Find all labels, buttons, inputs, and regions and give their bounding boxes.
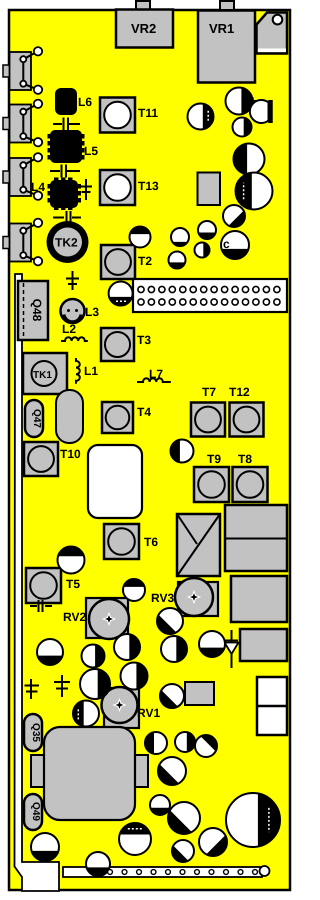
capacitor symbol below L6 — [53, 118, 80, 131]
electrolytic capacitor C37 — [31, 833, 59, 861]
svg-text:T8: T8 — [238, 452, 252, 466]
electrolytic capacitor C29 — [195, 735, 217, 757]
electrolytic capacitor C19 — [114, 634, 140, 660]
connector J1 (left edge jack) — [3, 65, 10, 77]
trimmer T4 — [102, 402, 133, 433]
trimmer T11 — [100, 98, 135, 133]
electrolytic capacitor C39 (D shape) — [250, 100, 269, 123]
connector SIL (bottom) — [108, 870, 113, 875]
inductor L1 — [76, 358, 80, 384]
electrolytic capacitor C24 — [161, 636, 187, 662]
capacitor symbol below T5 — [30, 600, 52, 612]
electrolytic capacitor C9 — [221, 231, 249, 259]
svg-text:RV2: RV2 — [63, 610, 86, 624]
resistor block — [185, 682, 214, 705]
electrolytic capacitor C3 — [233, 118, 252, 137]
svg-text:L4: L4 — [31, 180, 45, 194]
crystal Q47 — [25, 400, 43, 437]
connector J4 (left edge jack) — [3, 237, 10, 249]
electrolytic capacitor C2 — [226, 88, 253, 115]
capacitor symbol C-b — [54, 675, 70, 697]
svg-text:T2: T2 — [138, 254, 152, 268]
diode D1 — [225, 630, 238, 668]
pad block — [198, 173, 221, 206]
capacitor symbol C-a — [25, 679, 40, 699]
trimmer T8 — [233, 467, 268, 502]
svg-text:T6: T6 — [144, 535, 158, 549]
inductor L5 (toroid) — [50, 130, 82, 163]
electrolytic capacitor C28 — [175, 732, 195, 752]
electrolytic capacitor C11 — [169, 252, 186, 269]
electrolytic capacitor C18 — [82, 645, 105, 668]
svg-text:L6: L6 — [78, 95, 92, 109]
electrolytic capacitor C31 — [150, 795, 170, 815]
transformer (X box) — [177, 514, 220, 576]
electrolytic capacitor C38 — [86, 852, 110, 876]
electrolytic capacitor C26 — [160, 684, 184, 708]
electrolytic capacitor C33 — [199, 828, 227, 856]
electrolytic capacitor C10 — [195, 243, 210, 258]
svg-text:L2: L2 — [62, 322, 76, 336]
electrolytic capacitor C14 — [171, 440, 194, 463]
connector header 2x13 — [133, 279, 287, 312]
coil L3 — [61, 299, 85, 323]
capacitor block C-big1 — [225, 505, 287, 571]
capacitor symbol below L5 — [50, 165, 80, 178]
svg-text:TK2: TK2 — [55, 236, 78, 250]
electrolytic capacitor C36 — [172, 840, 194, 862]
svg-text:RV3: RV3 — [151, 591, 174, 605]
electrolytic capacitor C7 — [198, 221, 216, 239]
electrolytic capacitor C4 — [234, 144, 265, 175]
trimmer T13 — [100, 170, 135, 205]
electrolytic capacitor C23 — [157, 608, 183, 634]
capacitor block C-big3 — [240, 629, 287, 661]
wire (white trace bottom bar to SIL connector) — [63, 867, 262, 877]
trimmer T9 — [194, 467, 229, 502]
trimmer T12 — [230, 403, 264, 437]
connector J3 (left edge jack) — [3, 171, 10, 183]
trimmer T2 — [101, 245, 135, 279]
coil TK1 — [23, 353, 67, 394]
trimmer T3 — [101, 328, 134, 361]
electrolytic capacitor C27 — [145, 732, 167, 754]
trimmer T5 — [26, 568, 61, 603]
svg-text:T10: T10 — [60, 447, 81, 461]
crystal Q35 — [24, 714, 42, 751]
electrolytic capacitor C8 — [171, 228, 189, 246]
crystal Q49 — [24, 794, 42, 830]
svg-text:VR2: VR2 — [131, 21, 156, 36]
regulator VR1 tab — [220, 1, 234, 10]
svg-text:T12: T12 — [229, 385, 250, 399]
polarity mark — [250, 98, 256, 105]
svg-text:T9: T9 — [207, 452, 221, 466]
heatsink tab right of VR1 — [257, 13, 288, 54]
electrolytic capacitor C32 — [168, 802, 200, 834]
capacitor symbol above L3 — [66, 271, 79, 290]
svg-text:T7: T7 — [202, 385, 216, 399]
svg-text:RV1: RV1 — [137, 706, 160, 720]
regulator VR1 — [198, 11, 255, 83]
svg-text:c: c — [223, 237, 230, 251]
svg-text:L5: L5 — [84, 144, 98, 158]
svg-text:Q48: Q48 — [30, 299, 44, 322]
svg-text:T4: T4 — [137, 405, 151, 419]
trimmer T10 — [24, 442, 58, 476]
electrolytic capacitor C15 — [58, 547, 85, 574]
relay / filter (white box) — [88, 445, 142, 518]
trimmer T7 — [191, 403, 225, 437]
potentiometer RV1 — [104, 688, 139, 728]
wire (white power trace left side, elbow into bottom block) — [15, 274, 60, 891]
svg-text:Q47: Q47 — [31, 409, 42, 428]
electrolytic capacitor C17 — [37, 639, 63, 665]
connector J2 (left edge jack) — [3, 118, 10, 130]
electrolytic capacitor C22 — [73, 701, 99, 727]
svg-text:TK1: TK1 — [33, 370, 52, 381]
terminal block 2-way — [257, 677, 287, 735]
electrolytic capacitor C5 — [236, 173, 273, 210]
svg-text:T13: T13 — [138, 179, 159, 193]
trimmer T6 — [104, 524, 139, 559]
electrolytic capacitor C35 — [119, 823, 151, 855]
electrolytic capacitor C21 — [80, 669, 110, 699]
potentiometer RV2 — [86, 598, 128, 638]
svg-text:T11: T11 — [138, 106, 158, 120]
svg-text:Q49: Q49 — [30, 802, 41, 821]
svg-text:L3: L3 — [85, 305, 99, 319]
capacitor symbol below L4 — [53, 211, 81, 224]
capacitor (capsule) — [56, 390, 83, 443]
electrolytic capacitor C34 — [226, 793, 280, 847]
electrolytic capacitor C1 — [188, 104, 214, 130]
capacitor symbol right of L4 — [80, 179, 92, 200]
electrolytic capacitor C12 — [130, 227, 151, 248]
svg-text:Q35: Q35 — [30, 723, 41, 742]
svg-text:VR1: VR1 — [209, 21, 234, 36]
svg-text:T5: T5 — [66, 577, 80, 591]
coil TK2 — [47, 221, 89, 263]
crystal Q48 — [18, 281, 48, 340]
electrolytic capacitor C6 — [223, 205, 245, 227]
electrolytic capacitor C13 — [109, 282, 133, 306]
electrolytic capacitor C20 — [121, 663, 148, 690]
electrolytic capacitor C30 — [158, 757, 186, 785]
svg-text:L1: L1 — [84, 364, 98, 378]
regulator VR2 — [116, 10, 173, 48]
svg-text:T3: T3 — [137, 333, 151, 347]
electrolytic capacitor C16 — [123, 579, 145, 601]
potentiometer RV3 — [178, 582, 218, 616]
inductor L6 — [55, 88, 77, 115]
capacitor block C-big2 — [231, 576, 287, 622]
electrolytic capacitor C25 — [199, 631, 225, 657]
regulator VR2 tab — [136, 1, 150, 10]
IC U1 — [31, 755, 44, 787]
